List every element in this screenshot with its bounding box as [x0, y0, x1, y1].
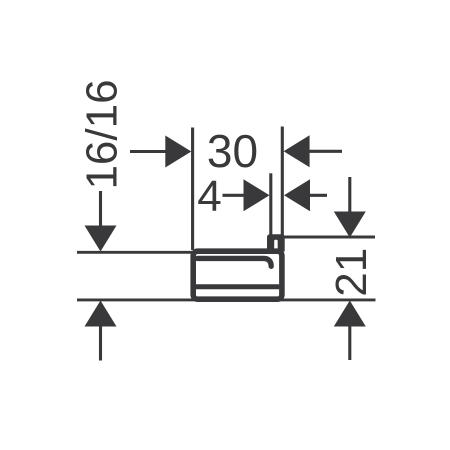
svg-text:4: 4: [197, 172, 221, 221]
wall line B (lower, full width): [77, 298, 376, 301]
arrow down (21 upper): [334, 212, 366, 238]
svg-text:16/16: 16/16: [78, 79, 127, 189]
arrow up (21 lower): [334, 301, 366, 327]
dim 21 leader upper: [348, 177, 351, 212]
arrow right (30 left): [165, 136, 191, 168]
wall line A (upper left): [77, 251, 193, 254]
dim 30 extension line left: [191, 128, 194, 251]
arrow right (4 left): [244, 179, 270, 211]
svg-text:21: 21: [327, 248, 376, 297]
dim 4 extension line left: [269, 173, 272, 235]
dim 4 leader left: [223, 194, 245, 197]
dim 4 leader right: [310, 194, 328, 197]
profile inner bottom line: [196, 284, 280, 289]
profile inner lip with hook: [198, 258, 272, 266]
reference line C (upper right): [282, 236, 375, 239]
arrow up (16/16 lower): [85, 301, 117, 327]
svg-text:30: 30: [207, 125, 258, 177]
dim 21 leader lower: [348, 326, 351, 360]
arrow down (16/16 upper): [85, 226, 117, 252]
dim 30 leader right: [309, 150, 343, 153]
profile top hook tab: [267, 234, 285, 251]
dim 16/16 leader upper: [99, 191, 102, 227]
profile outer body: [193, 251, 282, 299]
dim 16/16 leader lower: [99, 326, 102, 361]
dim 30 extension line right: [281, 127, 284, 236]
dim 30 leader left: [130, 150, 167, 153]
arrow left (30 right): [284, 135, 310, 167]
arrow left (4 right): [284, 179, 310, 211]
